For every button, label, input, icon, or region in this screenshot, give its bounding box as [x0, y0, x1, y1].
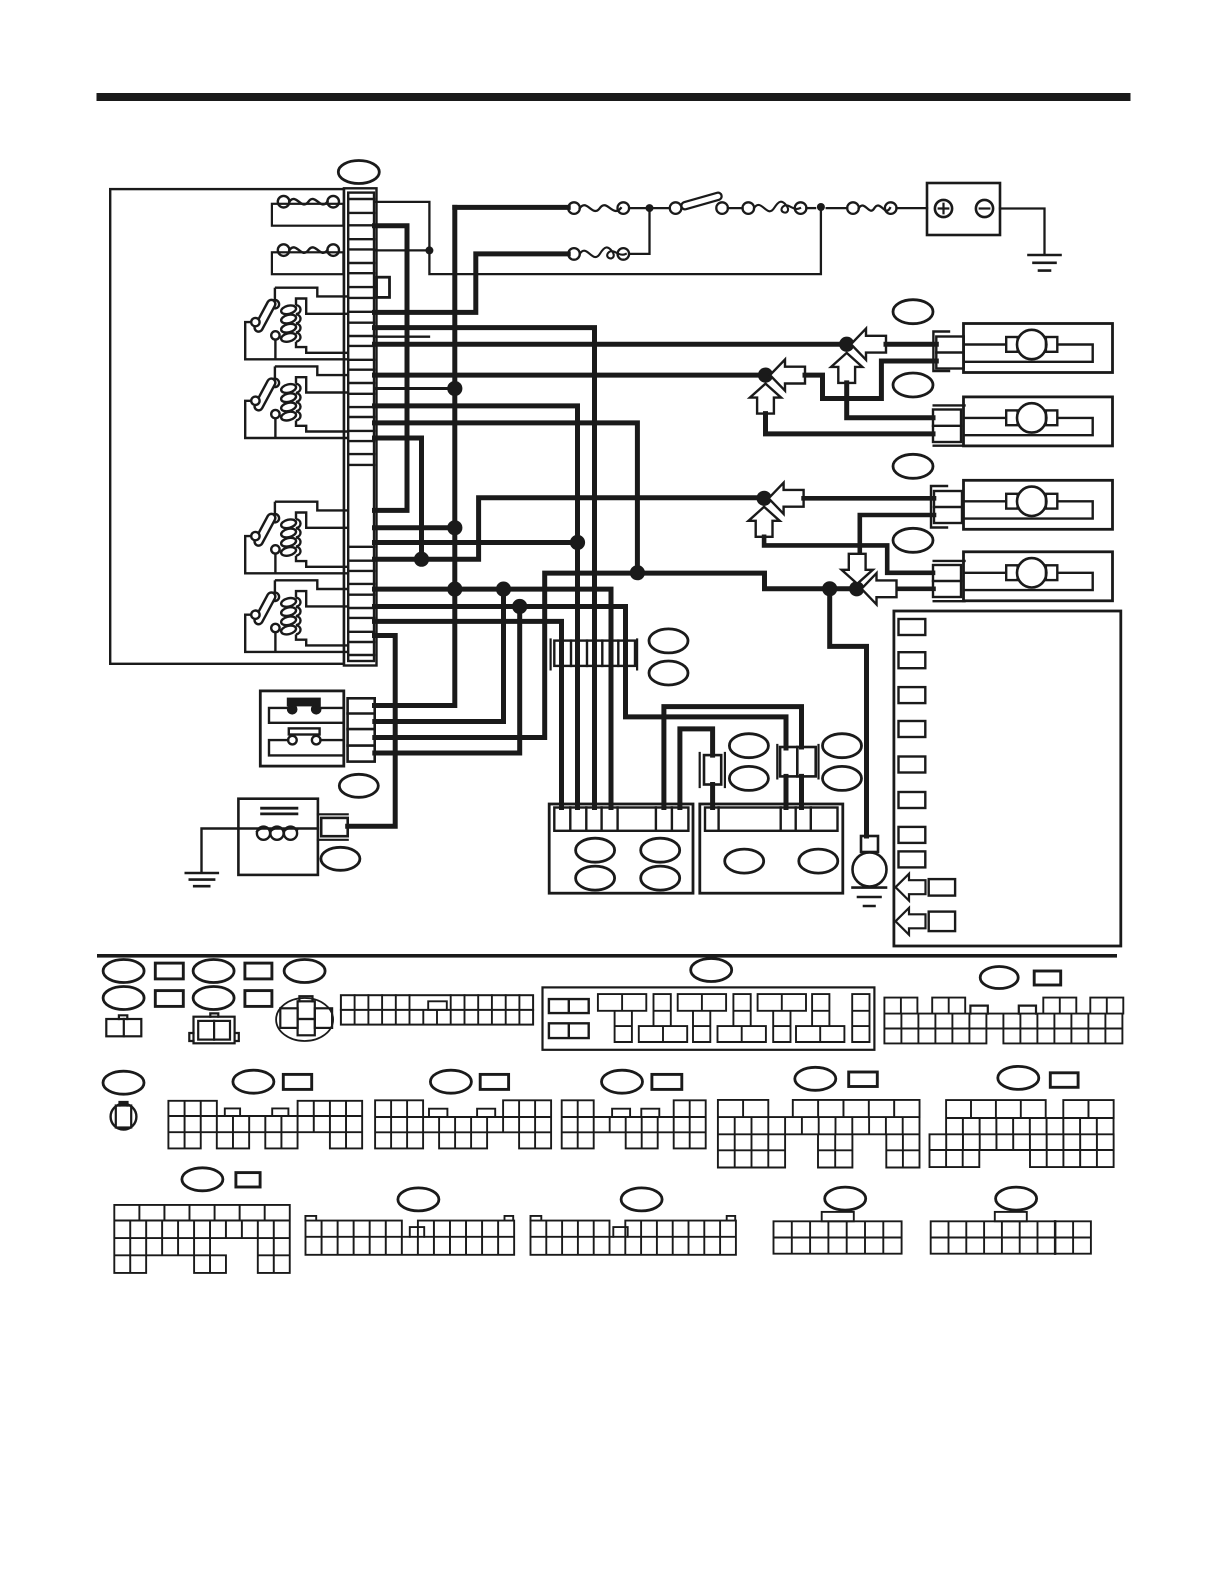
page arrow A4 left [862, 573, 897, 604]
pin grid F [114, 1205, 289, 1273]
label ellipse grid-f2 [182, 1168, 223, 1191]
label ellipse lamp3 [893, 454, 933, 478]
node lamp4-right dot [849, 581, 864, 596]
fusible link FL-b [795, 202, 807, 214]
lamp unit RR [964, 480, 1113, 529]
strip label ellipse [338, 161, 379, 184]
pin rect A [929, 879, 955, 896]
label ellipse r1a [103, 960, 144, 983]
wire to ignition junction [827, 207, 848, 209]
arrow A1 tail wire to lamp1 top [886, 342, 936, 347]
pin P8 [899, 851, 926, 867]
fuse F1 body [272, 204, 344, 226]
header rule [97, 93, 1131, 101]
box1 ellipse 4 [641, 866, 680, 890]
resistor R-a side lines [700, 753, 725, 787]
node D1 dot [447, 520, 462, 535]
page arrow A4 down [842, 554, 873, 584]
label box grid-b [480, 1074, 508, 1089]
page arrow A3u [749, 507, 780, 537]
node lamp4-left dot [822, 581, 837, 596]
connector strip outer shell [344, 188, 377, 665]
pin grid B [375, 1100, 551, 1148]
box2 pin cells [705, 808, 838, 831]
lamp unit FR [964, 324, 1113, 373]
wire row328 bundle-3 [375, 328, 595, 808]
battery [927, 183, 1000, 235]
box1 ellipse 2 [641, 838, 680, 862]
wire row388 tap [375, 387, 455, 390]
fusible link FL-a [885, 202, 897, 214]
condenser ground wire [202, 829, 239, 873]
node B1 dot [447, 381, 462, 396]
label box grid-a [283, 1074, 311, 1089]
label ellipse mid-c [823, 734, 862, 758]
wire row344 to lamp node A [375, 342, 847, 347]
label ellipse grid-i [825, 1187, 866, 1210]
wire row375 to lamp node B [375, 373, 766, 378]
page divider line [97, 954, 1117, 958]
page arrow A1 [851, 329, 886, 360]
flasher-3 riser to lamp4 bus [375, 573, 895, 737]
relay R4 [245, 580, 348, 652]
pin grid H [531, 1221, 736, 1255]
keyhole connector icon [111, 1104, 137, 1130]
pin grid G [306, 1221, 515, 1255]
thick wire fusible to strip row 312 [375, 254, 569, 313]
pin grid J [931, 1221, 1091, 1253]
fuse F2 element [278, 244, 290, 256]
bulb to ground [861, 836, 878, 852]
box arrow 1 [896, 874, 926, 901]
node A junction dot [839, 337, 854, 352]
ignition switch SW1 [716, 202, 728, 214]
fuse F1 element [278, 196, 290, 208]
lamp3 bottom pin wire to arrow A4 [860, 515, 934, 552]
connector box1 [549, 804, 693, 893]
pin rect B [929, 912, 955, 932]
ignition feed vertical bus [375, 207, 455, 705]
wire row528 tap D1 [375, 525, 455, 530]
relay R2 [245, 366, 348, 438]
node J1 [425, 246, 433, 254]
label box grid-f2 [236, 1173, 260, 1187]
pin grid I [774, 1221, 902, 1253]
ground G2 [1029, 255, 1061, 271]
label ellipse inline-b [649, 661, 688, 685]
box2 ellipse 2 [799, 849, 838, 873]
label box grid-f [1034, 971, 1061, 985]
label ellipse grid-j [996, 1187, 1037, 1210]
box1 pin cells [554, 808, 688, 831]
node bundle5 dot [630, 565, 645, 580]
pin P3 [899, 687, 926, 703]
connector icon 2-pole [106, 1019, 141, 1036]
node H2 dot [570, 535, 585, 550]
label ellipse mid-b [729, 766, 768, 790]
label box grid-c [652, 1074, 682, 1089]
flasher connector 4-cell strip [348, 698, 375, 761]
condenser plates [262, 808, 297, 814]
label ellipse grid-c [602, 1070, 643, 1093]
label ellipse inline-a [649, 629, 688, 653]
wire row438 to node D2 [375, 438, 422, 559]
ground G1 [186, 873, 218, 886]
pin P6 [899, 792, 926, 808]
label box grid-d [849, 1072, 878, 1087]
thick feed from fuse F3 to junction column [455, 205, 568, 210]
wire row559 to lamp3 feed [375, 498, 765, 559]
inline connector cells [554, 641, 635, 666]
label box r1d [245, 991, 272, 1007]
J2 branch wire [375, 202, 821, 274]
label ellipse grid-g [398, 1188, 439, 1211]
label box r1c [245, 963, 272, 979]
pin grid E [930, 1100, 1114, 1167]
fusible link FL-c [618, 248, 630, 260]
label ellipse lamp1 [893, 300, 933, 324]
lamp4 bottom pin wire [895, 586, 934, 591]
right pin grid [884, 998, 1123, 1044]
label ellipse grid-f [980, 967, 1018, 989]
fuse F2 wire to J1 [375, 249, 430, 251]
label ellipse condenser bottom [321, 847, 360, 870]
condenser feed wire [348, 636, 396, 827]
label ellipse grid-h [621, 1188, 662, 1211]
flasher resistor [289, 728, 320, 734]
J3 branch down to fusible row [629, 208, 649, 254]
noise condenser box [238, 799, 318, 875]
lamp1 connector [936, 337, 964, 369]
bulb branch wire [830, 589, 867, 836]
ignition key notch on strip [377, 277, 390, 297]
pin grid C [562, 1100, 706, 1148]
pin P1 [899, 619, 926, 635]
connector icon round [276, 998, 333, 1041]
inline connector bars [551, 640, 638, 670]
connector strip cell dividers [348, 199, 374, 655]
node D3 dot [447, 582, 462, 597]
node B junction dot [758, 368, 773, 383]
pin P2 [899, 652, 926, 668]
label ellipse lamp4 [893, 528, 933, 552]
connector icon 2-pole shell [194, 1017, 235, 1044]
page arrow A2 [770, 360, 805, 391]
label box r1b [155, 991, 183, 1007]
flasher contact bar [288, 699, 320, 705]
resistor R-a [704, 755, 721, 784]
wire U1 box1 to resistor R-b [664, 707, 802, 808]
flasher element-2 wiring [269, 740, 344, 755]
arrow A1u tail wire to lamp2 top [847, 383, 933, 418]
lamp2 connector [933, 410, 961, 443]
label ellipse r1b [103, 987, 144, 1010]
label ellipse r1d [193, 987, 234, 1010]
big bordered pin grid [543, 987, 875, 1049]
ground G3 [853, 888, 887, 906]
label box grid-e2 [1050, 1073, 1078, 1088]
lamp4 connector [933, 565, 961, 597]
fuse F2 body [272, 252, 344, 274]
relay R1 [245, 288, 348, 360]
arrow A3 tail wire to lamp3 top [804, 496, 934, 501]
flasher element-1 wiring [269, 708, 344, 723]
box arrow 2 [896, 908, 926, 935]
resistor R-b side lines [777, 745, 818, 778]
resistor R-b [780, 747, 816, 776]
box1 ellipse 3 [576, 866, 615, 890]
arrow A2 tail wire to lamp1 bottom [805, 361, 936, 399]
pin P4 [899, 721, 926, 737]
battery ground wire [1000, 209, 1045, 255]
node flasher4 dot [512, 599, 527, 614]
wire row589 through D3 to flasher-2 and bundle-4 [375, 589, 612, 807]
strip loop wire row226 to row510 [375, 226, 408, 511]
node J3 [646, 204, 654, 212]
box2 ellipse 1 [725, 849, 764, 873]
label ellipse grid-a [233, 1070, 274, 1093]
condenser connector [321, 818, 348, 836]
battery minus terminal [976, 200, 993, 217]
label ellipse grid-b [430, 1070, 471, 1093]
box1 ellipse 1 [576, 838, 615, 862]
node J2 [817, 203, 825, 211]
connector strip cell column [348, 193, 374, 661]
lamp unit FL [964, 397, 1113, 446]
pin grid A [168, 1101, 362, 1149]
box1 link wire through resistor R-a [680, 729, 713, 808]
wire row621 bundle-1 [375, 621, 562, 807]
battery plus terminal [935, 200, 952, 217]
right unit box [894, 611, 1121, 946]
pin P7 [899, 827, 926, 843]
label ellipse lamp2 [893, 373, 933, 397]
node D3a dot [496, 582, 511, 597]
node D2 dot [414, 552, 429, 567]
wire row406 bundle-2 [375, 406, 578, 808]
pin P5 [899, 757, 926, 773]
arrow A2u tail wire to lamp2 bottom [766, 414, 934, 434]
arrow A3u tail wire to lamp4 top [764, 537, 933, 573]
wire U2 tail below resistor R-b [784, 776, 789, 807]
label ellipse grid-e [691, 959, 732, 982]
label ellipse r2-key [103, 1071, 144, 1094]
node C junction dot [757, 491, 772, 506]
lamp3 connector [934, 491, 962, 523]
long 2-row connector strip [341, 995, 533, 1024]
lamp unit RL [964, 552, 1113, 601]
flasher-4 drop wire [375, 607, 520, 754]
wire row606 to bundle-5 [375, 607, 787, 749]
grid-e pin pattern [598, 994, 870, 1042]
page arrow A3 [769, 483, 804, 514]
relay R3 [245, 502, 348, 574]
main fuse-relay box F/B [110, 189, 344, 664]
condenser coil [238, 827, 318, 829]
label box r1a [155, 963, 183, 979]
page arrow A1u [831, 353, 862, 383]
wire row542 tap H2 [375, 540, 578, 545]
flasher unit box [260, 691, 344, 766]
label ellipse grid-e2 [998, 1066, 1039, 1089]
label ellipse mid-d [823, 766, 862, 790]
label ellipse condenser top [339, 774, 378, 797]
pin grid D [718, 1100, 920, 1168]
label ellipse mid-a [729, 734, 768, 758]
label ellipse r1e [284, 960, 325, 983]
label ellipse r1c [193, 960, 234, 983]
wire row423 to lamp4 bus [375, 423, 638, 573]
connector box2 [700, 804, 843, 893]
grid-e left pins [549, 999, 589, 1038]
wire row337 stub [375, 336, 430, 338]
label ellipse grid-d [795, 1067, 836, 1090]
fuse F3 [618, 202, 630, 214]
main battery feed wire [897, 207, 928, 209]
page arrow A2u [750, 384, 781, 414]
